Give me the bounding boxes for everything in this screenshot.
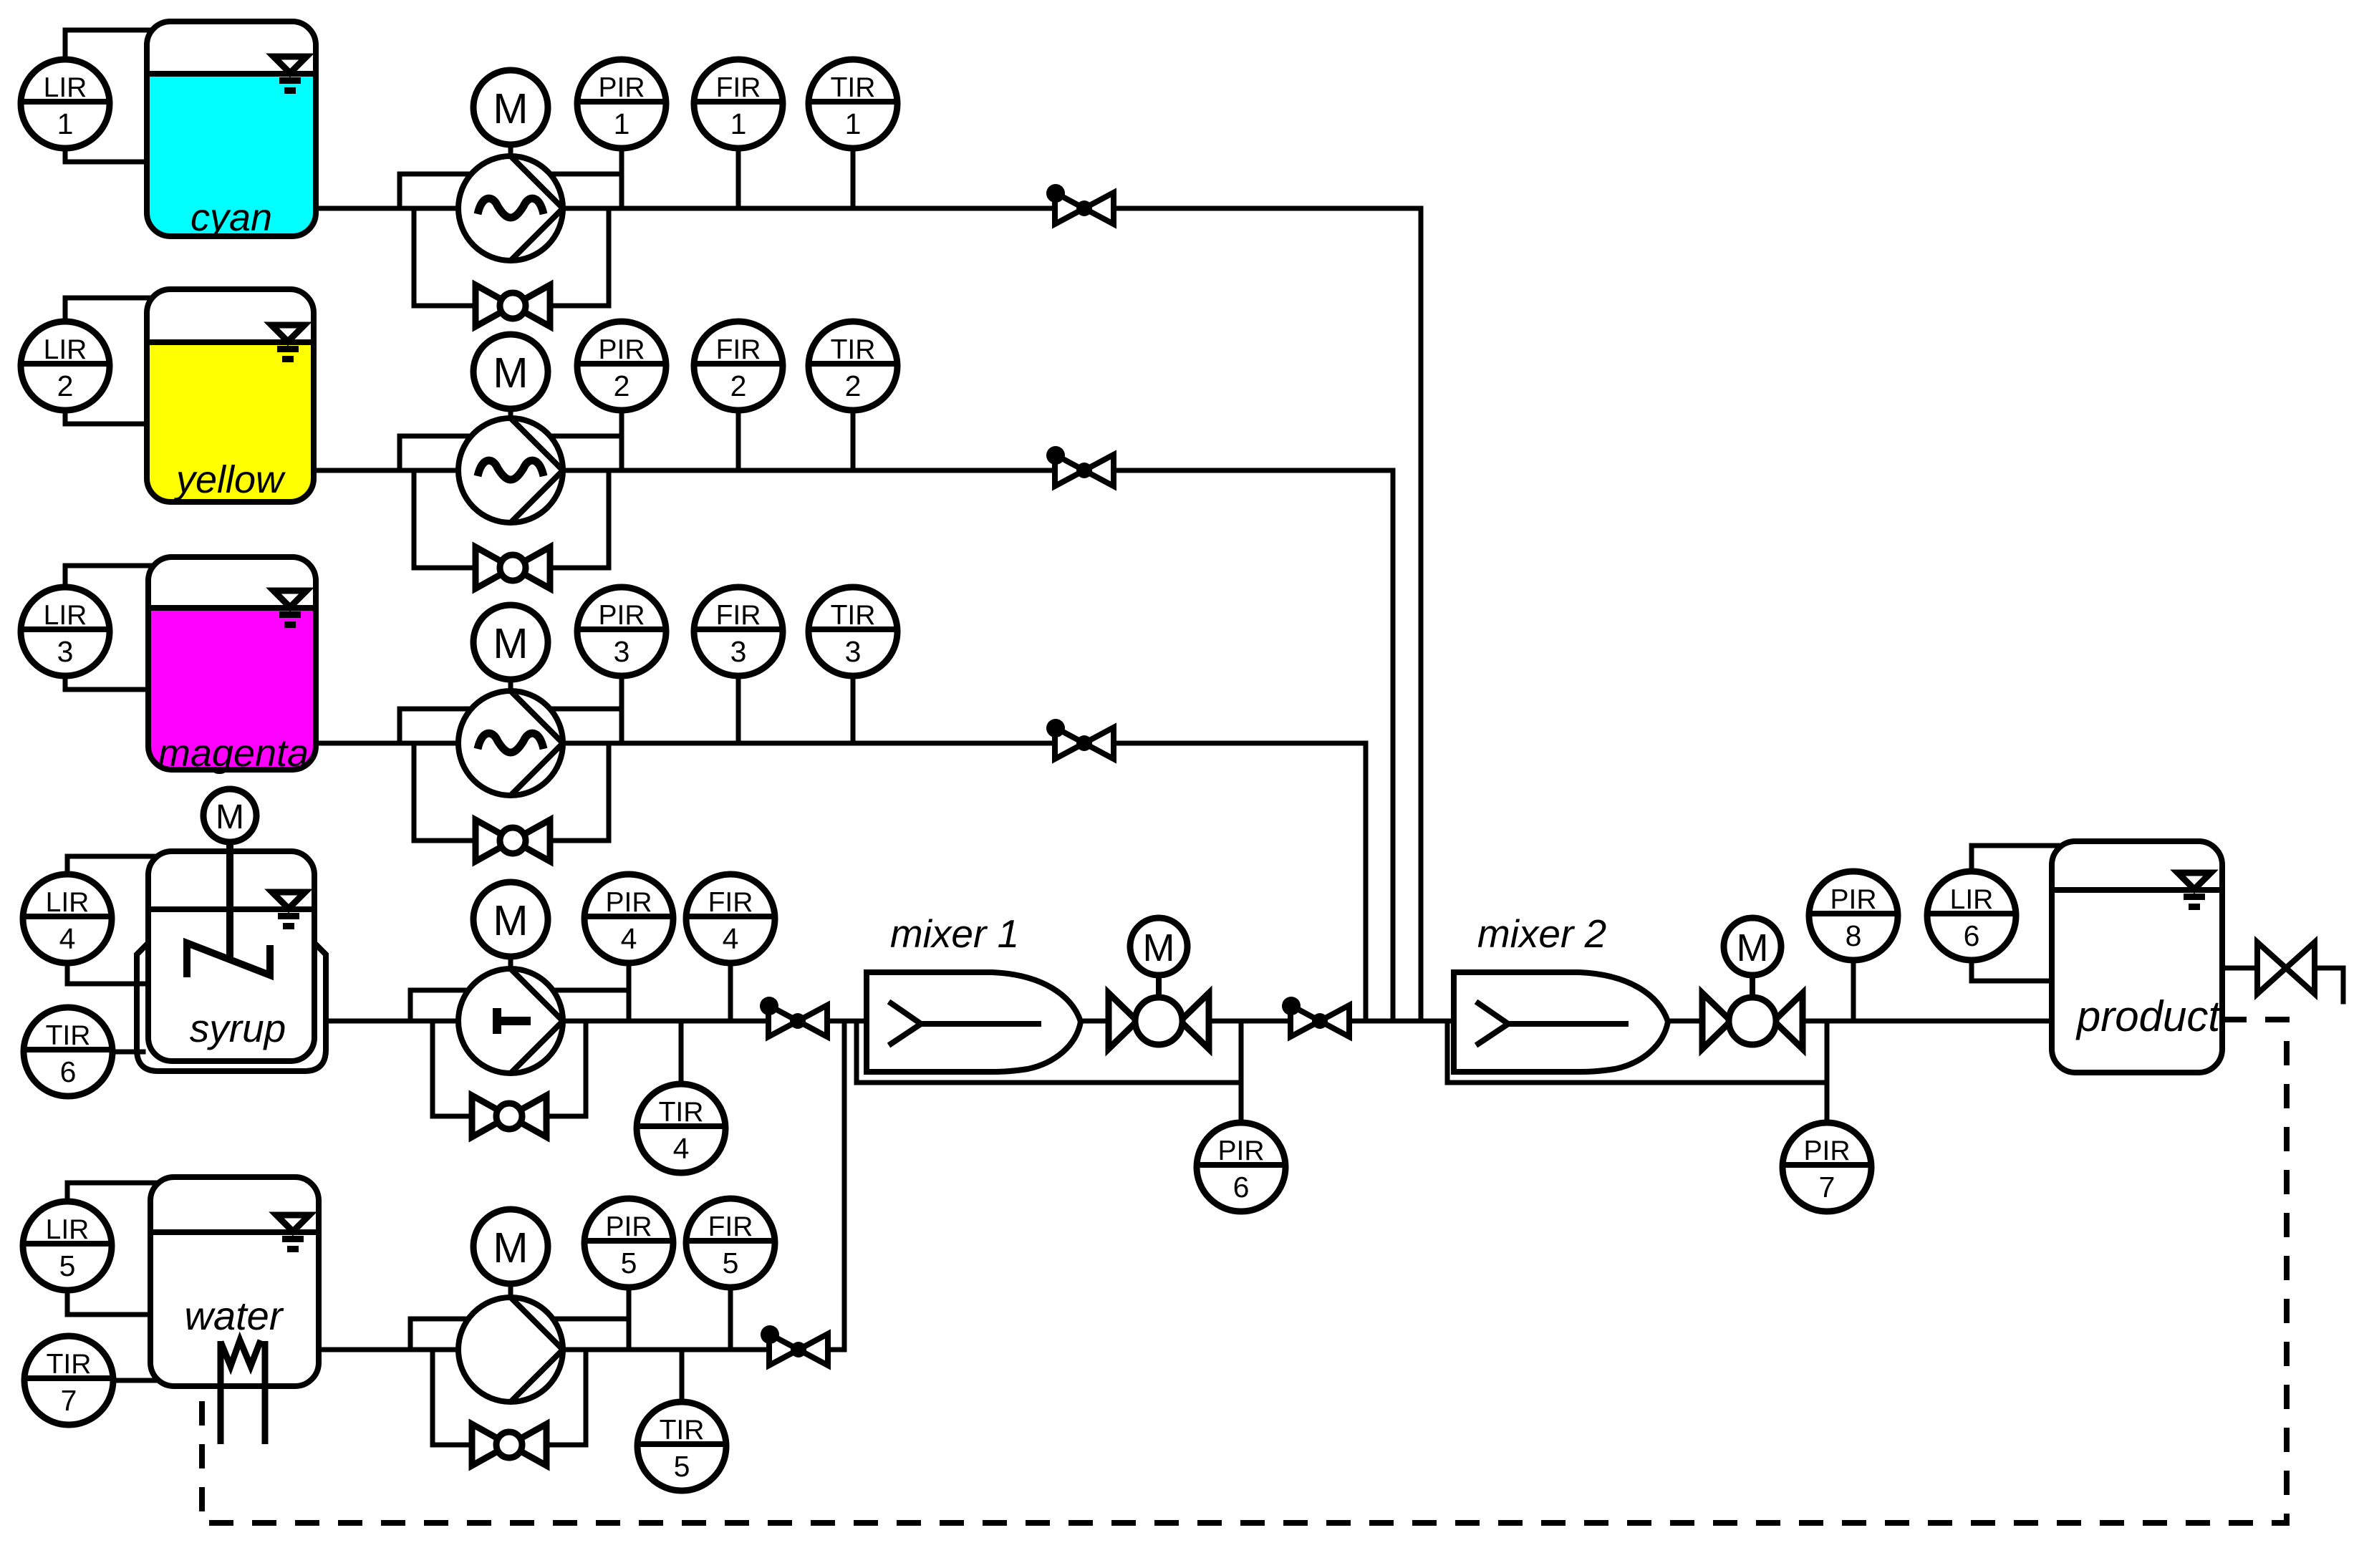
tank water <box>150 1177 319 1386</box>
mixer vessel mixer2 <box>1454 972 1668 1072</box>
svg-text:TIR: TIR <box>47 1349 92 1380</box>
svg-text:2: 2 <box>57 369 74 402</box>
instrument LIR-5 <box>23 1201 112 1290</box>
motor M5 <box>473 1209 548 1284</box>
svg-text:M: M <box>216 798 244 836</box>
svg-text:2: 2 <box>845 369 862 402</box>
wire LIR-4 top tap <box>67 856 154 874</box>
dashed recycle line product to water tank <box>202 1020 2287 1523</box>
wire LIR-3 bottom tap <box>65 676 154 689</box>
pump P4 <box>458 969 563 1073</box>
svg-text:6: 6 <box>1233 1171 1250 1204</box>
svg-text:FIR: FIR <box>716 600 761 631</box>
svg-text:PIR: PIR <box>1803 1136 1850 1166</box>
wire pump 2 bypass loop <box>414 470 609 568</box>
svg-text:FIR: FIR <box>716 334 761 365</box>
wire M1 stem <box>508 145 513 156</box>
wire PIR-8 stem <box>1851 960 1856 1021</box>
valve V1 <box>1046 184 1114 224</box>
wire FIR-4 stem <box>728 963 733 1021</box>
instrument TIR-2 <box>809 321 897 410</box>
motor M1 <box>473 70 548 145</box>
tank syrup <box>148 851 314 1061</box>
jacket syrup tank <box>137 943 326 1071</box>
svg-text:M: M <box>493 349 528 397</box>
level symbol product <box>2178 873 2211 910</box>
wire pump 5 suction box <box>410 1319 629 1350</box>
level symbol water <box>276 1215 309 1252</box>
wire pump 1 bypass loop <box>414 208 609 306</box>
svg-text:7: 7 <box>61 1384 77 1417</box>
wire product valve outlet <box>2315 968 2343 1002</box>
wire FIR-1 stem <box>736 148 741 208</box>
level symbol magenta <box>274 591 307 628</box>
wire LIR-1 top tap <box>65 30 153 59</box>
pump P5 <box>458 1297 563 1402</box>
instrument TIR-4 <box>637 1084 725 1173</box>
instrument PIR-5 <box>584 1199 673 1287</box>
svg-text:mixer 1: mixer 1 <box>890 911 1019 956</box>
wire pump 2 suction box <box>400 436 622 470</box>
svg-text:M: M <box>493 897 528 944</box>
wire valve 5 to riser <box>828 1347 844 1352</box>
wire TIR-5 stem <box>680 1350 685 1403</box>
wire TIR-7 tap <box>113 1378 165 1383</box>
wire mixer2 to control valve 2 <box>1670 1019 1702 1024</box>
svg-text:1: 1 <box>845 107 862 140</box>
wire mixer 1 bypass <box>857 1021 1241 1083</box>
svg-text:6: 6 <box>60 1055 77 1088</box>
instrument TIR-5 <box>637 1402 726 1491</box>
control valve CV1 <box>1109 975 1209 1049</box>
wire control valve 2 to product tank <box>1803 1019 2058 1024</box>
instrument PIR-6 <box>1197 1123 1285 1211</box>
wire pipe row 1 tank to mixer2 feed <box>316 208 1421 1021</box>
svg-text:M: M <box>493 85 528 132</box>
wire PIR-1 stem <box>619 148 624 208</box>
instrument FIR-5 <box>686 1199 775 1287</box>
svg-text:1: 1 <box>730 107 747 140</box>
wire LIR-2 bottom tap <box>65 410 153 424</box>
svg-text:2: 2 <box>730 369 747 402</box>
wire pipe row 2 tank to mixer2 feed <box>314 470 1393 1021</box>
level symbol cyan <box>274 57 307 94</box>
tank product <box>2052 841 2222 1073</box>
valve V2 <box>1046 446 1114 486</box>
level symbol syrup <box>272 892 305 929</box>
svg-text:syrup: syrup <box>190 1006 286 1050</box>
motor M2 <box>473 334 548 409</box>
svg-text:4: 4 <box>621 922 637 955</box>
instrument LIR-6 <box>1927 871 2016 960</box>
tank cyan <box>147 21 316 236</box>
wire FIR-5 stem <box>728 1287 733 1350</box>
wire M4 stem <box>508 957 513 969</box>
wire LIR-2 top tap <box>65 298 153 321</box>
instrument LIR-1 <box>21 59 110 148</box>
wire TIR-6 tap <box>112 1050 143 1055</box>
svg-text:PIR: PIR <box>598 334 645 365</box>
svg-text:TIR: TIR <box>659 1097 704 1128</box>
agitator shaft <box>226 840 233 962</box>
instrument LIR-2 <box>21 321 110 410</box>
wire LIR-6 bottom tap <box>1972 960 2058 981</box>
wire water feed riser <box>842 1021 847 1350</box>
svg-text:7: 7 <box>1819 1171 1835 1204</box>
wire PIR-5 stem <box>627 1287 632 1350</box>
svg-text:M: M <box>1737 926 1769 969</box>
wire pump 1 suction box <box>400 174 622 208</box>
instrument PIR-3 <box>577 587 666 676</box>
svg-text:3: 3 <box>845 635 862 668</box>
svg-text:6: 6 <box>1964 919 1980 952</box>
svg-text:3: 3 <box>57 635 74 668</box>
wire FIR-2 stem <box>736 410 741 470</box>
wire LIR-3 top tap <box>65 566 154 587</box>
instrument TIR-1 <box>809 59 897 148</box>
svg-text:4: 4 <box>723 922 739 955</box>
wire mixer1 to control valve 1 <box>1081 1019 1109 1024</box>
svg-text:TIR: TIR <box>660 1415 705 1446</box>
wire TIR-1 stem <box>851 148 856 208</box>
instrument TIR-3 <box>809 587 897 676</box>
pump P2 <box>458 418 563 523</box>
svg-text:M: M <box>493 620 528 667</box>
bypass valve V1b <box>476 285 550 326</box>
svg-text:LIR: LIR <box>44 600 87 631</box>
wire PIR-6 stem <box>1239 1021 1244 1123</box>
svg-text:5: 5 <box>621 1247 637 1279</box>
svg-text:TIR: TIR <box>831 600 876 631</box>
svg-text:M: M <box>1143 926 1175 969</box>
heater element <box>221 1340 265 1444</box>
svg-text:PIR: PIR <box>605 1211 652 1242</box>
instrument FIR-2 <box>694 321 783 410</box>
svg-text:PIR: PIR <box>598 600 645 631</box>
bypass valve V3b <box>476 820 550 861</box>
instrument PIR-7 <box>1782 1123 1871 1211</box>
wire M5 stem <box>508 1284 513 1297</box>
svg-text:8: 8 <box>1846 919 1862 952</box>
instrument LIR-4 <box>23 874 112 963</box>
wire pipe row 3 tank to mixer2 feed <box>316 743 1366 1021</box>
svg-text:PIR: PIR <box>598 72 645 103</box>
svg-text:2: 2 <box>614 369 630 402</box>
wire syrup pipe to mixer 1 <box>326 1019 867 1024</box>
wire TIR-3 stem <box>851 676 856 743</box>
instrument FIR-4 <box>686 874 775 963</box>
wire LIR-6 top tap <box>1972 846 2058 871</box>
wire LIR-1 bottom tap <box>65 148 153 162</box>
agitator impeller <box>187 943 270 977</box>
svg-text:LIR: LIR <box>44 72 87 103</box>
wire pump 3 suction box <box>400 709 622 743</box>
svg-text:mixer 2: mixer 2 <box>1477 911 1606 956</box>
svg-text:FIR: FIR <box>708 1211 753 1242</box>
valve V3 <box>1046 719 1114 759</box>
svg-text:5: 5 <box>59 1249 76 1282</box>
wire TIR-4 stem <box>679 1021 684 1084</box>
tank magenta <box>148 557 316 770</box>
wire junction valve to mixer 2 <box>1349 1019 1454 1024</box>
motor M-agitator <box>203 789 256 842</box>
tank yellow <box>147 289 314 502</box>
wire control valve 1 to junction valve <box>1209 1019 1291 1024</box>
valve V4 <box>760 997 827 1037</box>
wire M2 stem <box>508 409 513 418</box>
wire TIR-2 stem <box>851 410 856 470</box>
valve V5 <box>761 1325 828 1365</box>
wire water pipe to valve 5 <box>319 1347 769 1352</box>
svg-text:water: water <box>185 1293 284 1338</box>
instrument TIR-7 <box>24 1336 113 1425</box>
svg-text:cyan: cyan <box>190 196 272 239</box>
bypass valve V2b <box>476 547 550 589</box>
product outlet valve <box>2257 942 2315 994</box>
level symbol yellow <box>271 325 304 362</box>
instrument FIR-1 <box>694 59 783 148</box>
wire PIR-7 stem <box>1825 1021 1830 1123</box>
wire LIR-4 bottom tap <box>67 963 151 984</box>
svg-text:TIR: TIR <box>831 72 876 103</box>
control valve CV2 <box>1702 975 1803 1049</box>
motor M4 <box>473 882 548 957</box>
wire PIR-3 stem <box>619 676 624 743</box>
motor M-CV2 <box>1724 918 1781 975</box>
instrument TIR-6 <box>24 1007 112 1096</box>
wire FIR-3 stem <box>736 676 741 743</box>
wire pump 3 bypass loop <box>414 743 609 841</box>
wire LIR-5 top tap <box>67 1183 156 1201</box>
svg-text:product: product <box>2075 992 2221 1040</box>
instrument LIR-3 <box>21 587 110 676</box>
motor M-CV1 <box>1130 918 1187 975</box>
instrument PIR-1 <box>577 59 666 148</box>
svg-text:4: 4 <box>59 922 76 955</box>
svg-text:4: 4 <box>673 1132 690 1165</box>
svg-text:magenta: magenta <box>158 732 309 775</box>
wire pump 4 suction box <box>410 990 629 1021</box>
instrument PIR-4 <box>584 874 673 963</box>
wire pump 5 bypass loop <box>433 1350 586 1445</box>
bypass valve V5b <box>472 1424 546 1466</box>
svg-text:LIR: LIR <box>46 887 90 918</box>
pump P3 <box>458 691 563 795</box>
instrument PIR-8 <box>1809 871 1898 960</box>
svg-text:M: M <box>493 1224 528 1272</box>
svg-text:FIR: FIR <box>708 887 753 918</box>
wire M3 stem <box>508 679 513 691</box>
svg-text:5: 5 <box>723 1247 739 1279</box>
svg-text:5: 5 <box>674 1450 690 1483</box>
svg-text:3: 3 <box>614 635 630 668</box>
svg-text:LIR: LIR <box>46 1214 90 1245</box>
wire PIR-2 stem <box>619 410 624 470</box>
svg-text:TIR: TIR <box>46 1020 91 1051</box>
wire PIR-4 stem <box>627 963 632 1021</box>
bypass valve V4b <box>472 1095 546 1137</box>
instrument PIR-2 <box>577 321 666 410</box>
svg-text:PIR: PIR <box>1830 884 1876 915</box>
svg-text:3: 3 <box>730 635 747 668</box>
wire product outlet to valve <box>2222 966 2257 971</box>
valve V6 <box>1282 997 1349 1037</box>
svg-text:LIR: LIR <box>44 334 87 365</box>
svg-text:PIR: PIR <box>1217 1136 1264 1166</box>
svg-text:1: 1 <box>57 107 74 140</box>
svg-text:PIR: PIR <box>605 887 652 918</box>
svg-text:yellow: yellow <box>173 458 286 501</box>
wire LIR-5 bottom tap <box>67 1290 153 1315</box>
instrument FIR-3 <box>694 587 783 676</box>
svg-text:TIR: TIR <box>831 334 876 365</box>
wire pump 4 bypass loop <box>433 1021 586 1116</box>
motor M3 <box>473 605 548 679</box>
svg-text:1: 1 <box>614 107 630 140</box>
pump P1 <box>458 156 563 261</box>
svg-text:FIR: FIR <box>716 72 761 103</box>
svg-text:LIR: LIR <box>1950 884 1994 915</box>
mixer vessel mixer1 <box>867 972 1081 1072</box>
wire mixer 2 bypass <box>1447 1021 1827 1083</box>
